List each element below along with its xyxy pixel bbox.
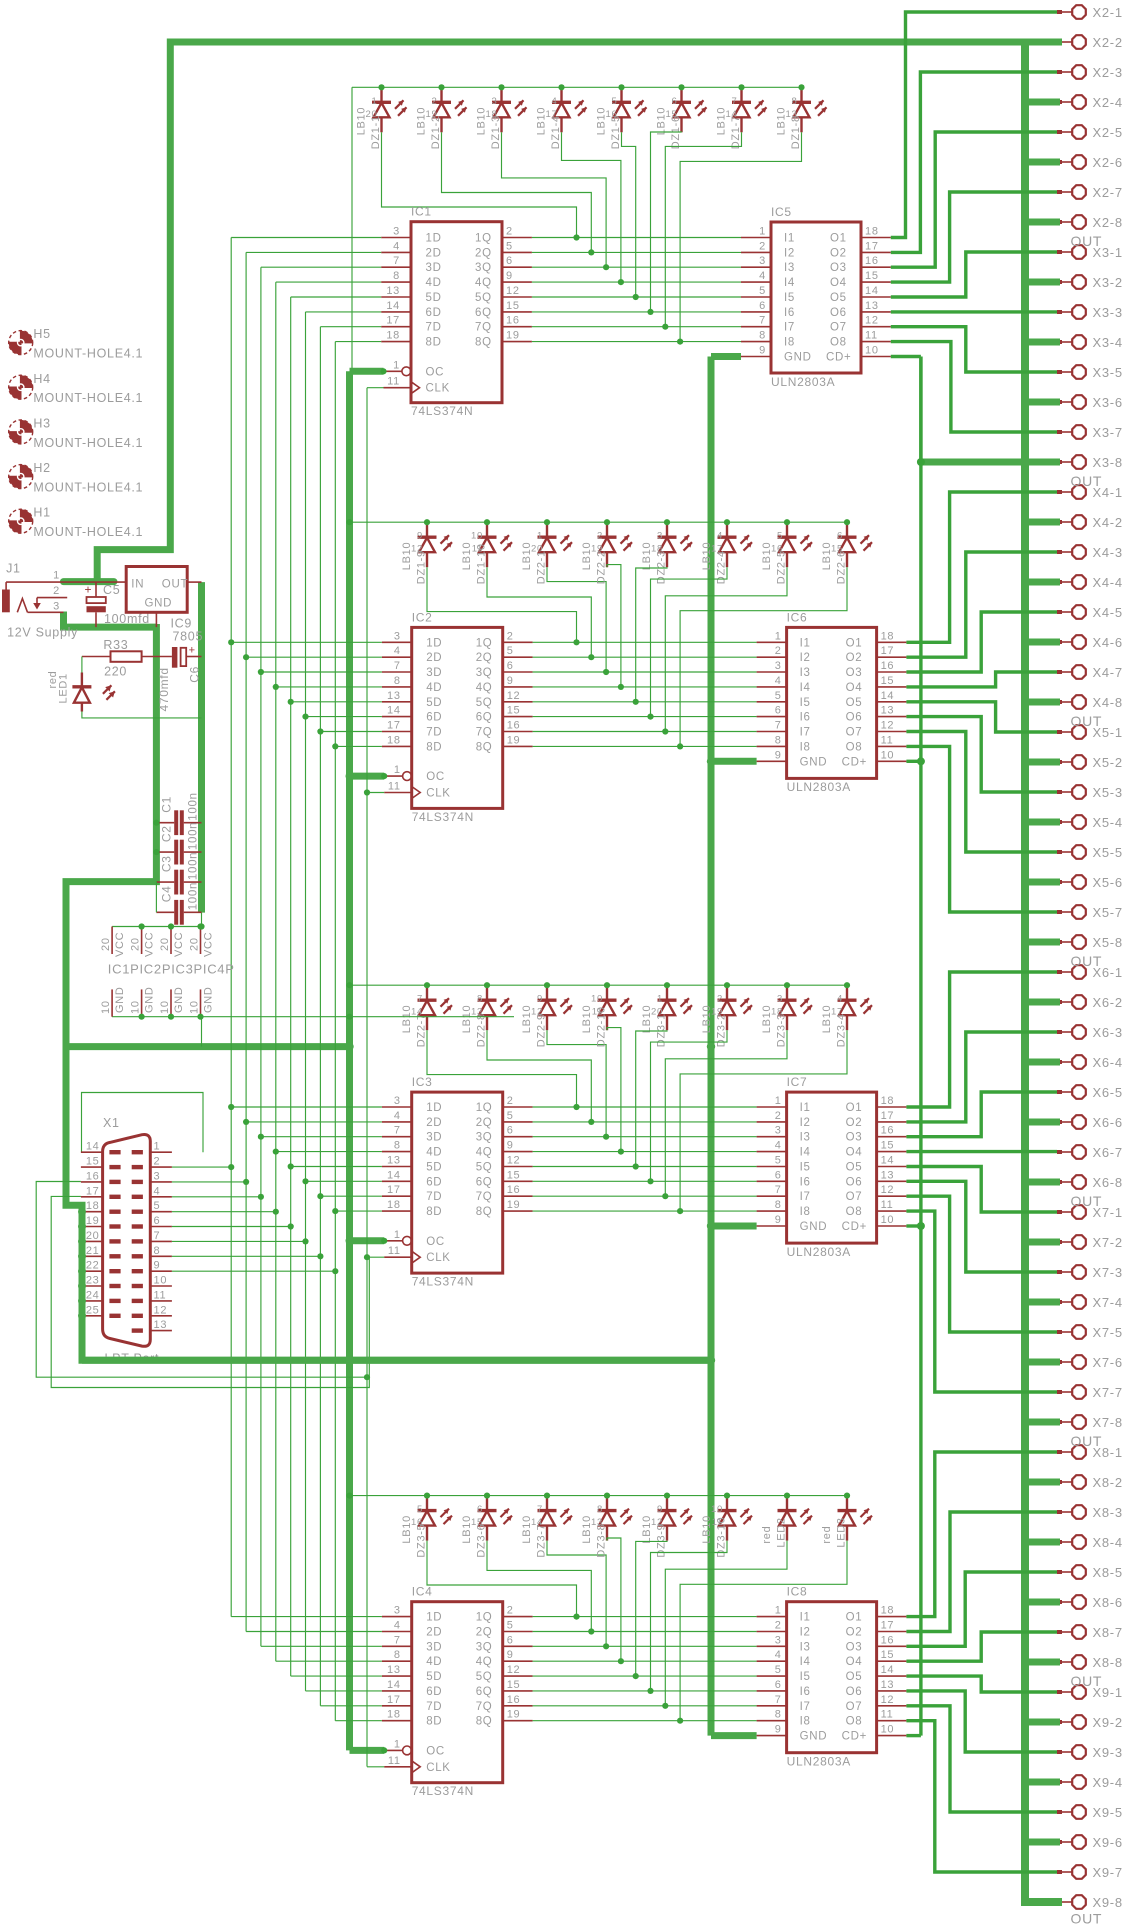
svg-text:DZ1-1: DZ1-1 xyxy=(370,115,382,149)
svg-text:X3-7: X3-7 xyxy=(1093,425,1123,440)
svg-text:13: 13 xyxy=(154,1319,168,1331)
svg-text:5D: 5D xyxy=(426,697,442,709)
svg-text:7: 7 xyxy=(775,1184,782,1196)
svg-text:I8: I8 xyxy=(784,337,795,349)
svg-text:I8: I8 xyxy=(800,1206,811,1218)
svg-text:7Q: 7Q xyxy=(476,1701,493,1713)
svg-text:C5: C5 xyxy=(103,583,120,597)
svg-text:X4-6: X4-6 xyxy=(1093,635,1123,650)
svg-text:21: 21 xyxy=(86,1245,100,1257)
svg-text:17: 17 xyxy=(865,240,879,252)
svg-text:DZ1-3: DZ1-3 xyxy=(490,115,502,149)
svg-text:8D: 8D xyxy=(426,1206,442,1218)
svg-text:I7: I7 xyxy=(800,727,811,739)
svg-text:X7-8: X7-8 xyxy=(1093,1415,1123,1430)
svg-text:VCC: VCC xyxy=(203,932,215,957)
svg-text:1Q: 1Q xyxy=(476,637,493,649)
svg-text:2Q: 2Q xyxy=(476,1627,493,1639)
svg-text:18: 18 xyxy=(387,1709,401,1721)
svg-text:I3: I3 xyxy=(784,262,795,274)
svg-text:X4-3: X4-3 xyxy=(1093,545,1123,560)
svg-text:O5: O5 xyxy=(846,1671,863,1683)
svg-text:100mfd: 100mfd xyxy=(104,612,150,626)
svg-text:100n: 100n xyxy=(188,882,200,910)
svg-text:H4: H4 xyxy=(33,372,50,386)
svg-text:5: 5 xyxy=(506,240,513,252)
svg-text:18: 18 xyxy=(486,109,498,120)
svg-text:11: 11 xyxy=(388,1755,401,1767)
svg-text:17: 17 xyxy=(831,1007,843,1018)
svg-text:5: 5 xyxy=(759,285,766,297)
svg-text:8: 8 xyxy=(792,96,798,107)
svg-text:3: 3 xyxy=(775,1125,782,1137)
svg-text:9: 9 xyxy=(507,675,514,687)
svg-text:2Q: 2Q xyxy=(476,652,493,664)
svg-text:X7-6: X7-6 xyxy=(1093,1355,1123,1370)
svg-text:7D: 7D xyxy=(426,727,442,739)
svg-text:X8-4: X8-4 xyxy=(1093,1535,1123,1550)
svg-text:5D: 5D xyxy=(426,1162,442,1174)
svg-text:IN: IN xyxy=(131,578,144,590)
svg-text:10: 10 xyxy=(881,1724,895,1736)
svg-text:IC9: IC9 xyxy=(171,617,193,631)
svg-text:O6: O6 xyxy=(830,307,847,319)
svg-text:1: 1 xyxy=(394,1229,401,1241)
svg-text:15: 15 xyxy=(471,1517,483,1528)
svg-text:7: 7 xyxy=(393,255,400,267)
svg-text:20: 20 xyxy=(130,937,142,951)
svg-text:5Q: 5Q xyxy=(475,292,492,304)
svg-text:16: 16 xyxy=(771,544,783,555)
svg-text:14: 14 xyxy=(86,1141,100,1153)
svg-text:4Q: 4Q xyxy=(475,277,492,289)
svg-text:5: 5 xyxy=(417,1504,423,1515)
svg-text:GND: GND xyxy=(114,986,126,1013)
svg-text:2D: 2D xyxy=(426,247,442,259)
svg-text:I7: I7 xyxy=(800,1191,811,1203)
svg-text:9: 9 xyxy=(775,1724,782,1736)
svg-text:I1: I1 xyxy=(784,233,795,245)
svg-text:14: 14 xyxy=(387,705,401,717)
svg-text:10: 10 xyxy=(881,1214,895,1226)
svg-text:O5: O5 xyxy=(846,697,863,709)
svg-text:12: 12 xyxy=(507,690,521,702)
svg-text:15: 15 xyxy=(666,109,678,120)
svg-text:OUT: OUT xyxy=(1071,953,1103,969)
svg-text:C2: C2 xyxy=(160,825,174,842)
svg-text:4D: 4D xyxy=(426,1656,442,1668)
svg-text:6D: 6D xyxy=(426,1686,442,1698)
svg-text:X5-7: X5-7 xyxy=(1093,905,1123,920)
svg-text:16: 16 xyxy=(507,1694,521,1706)
svg-text:OC: OC xyxy=(426,1236,445,1248)
svg-text:DZ2-9: DZ2-9 xyxy=(536,1013,548,1047)
svg-text:DZ3-3: DZ3-3 xyxy=(776,1013,788,1047)
svg-text:2: 2 xyxy=(597,531,603,542)
svg-text:O2: O2 xyxy=(846,1117,863,1129)
svg-text:GND: GND xyxy=(800,756,828,768)
svg-text:3: 3 xyxy=(154,1170,161,1182)
svg-text:17: 17 xyxy=(546,109,558,120)
svg-text:X2-3: X2-3 xyxy=(1093,65,1123,80)
svg-text:3D: 3D xyxy=(426,1132,442,1144)
svg-text:MOUNT-HOLE4.1: MOUNT-HOLE4.1 xyxy=(33,436,143,450)
svg-text:12: 12 xyxy=(881,720,895,732)
svg-text:5: 5 xyxy=(612,96,618,107)
svg-text:4Q: 4Q xyxy=(476,1147,493,1159)
svg-text:3Q: 3Q xyxy=(475,262,492,274)
svg-text:12: 12 xyxy=(531,1007,543,1018)
svg-text:+: + xyxy=(189,645,196,657)
svg-text:4: 4 xyxy=(394,645,401,657)
svg-text:20: 20 xyxy=(86,1230,100,1242)
svg-text:I5: I5 xyxy=(800,1162,811,1174)
svg-text:8: 8 xyxy=(775,1199,782,1211)
svg-text:X5-5: X5-5 xyxy=(1093,845,1123,860)
svg-text:14: 14 xyxy=(386,300,400,312)
svg-text:17: 17 xyxy=(881,645,895,657)
svg-text:I3: I3 xyxy=(800,1132,811,1144)
svg-text:X6-3: X6-3 xyxy=(1093,1025,1123,1040)
svg-text:IC4: IC4 xyxy=(412,1585,433,1599)
svg-text:17: 17 xyxy=(881,1110,895,1122)
svg-text:O6: O6 xyxy=(846,712,863,724)
svg-text:6: 6 xyxy=(506,255,513,267)
svg-text:OUT: OUT xyxy=(1071,473,1103,489)
svg-text:4: 4 xyxy=(394,1110,401,1122)
svg-text:IC3: IC3 xyxy=(412,1075,433,1089)
svg-text:VCC: VCC xyxy=(114,932,126,957)
svg-text:7: 7 xyxy=(775,1694,782,1706)
svg-text:17: 17 xyxy=(881,1620,895,1632)
svg-text:6: 6 xyxy=(507,1125,514,1137)
svg-text:X6-7: X6-7 xyxy=(1093,1145,1123,1160)
svg-text:MOUNT-HOLE4.1: MOUNT-HOLE4.1 xyxy=(33,391,143,405)
svg-text:X3-6: X3-6 xyxy=(1093,395,1123,410)
svg-text:13: 13 xyxy=(865,300,879,312)
svg-text:4: 4 xyxy=(837,994,843,1005)
svg-text:X5-2: X5-2 xyxy=(1093,755,1123,770)
svg-text:12: 12 xyxy=(411,544,423,555)
svg-text:2: 2 xyxy=(507,1095,514,1107)
svg-text:18: 18 xyxy=(881,1605,895,1617)
svg-text:22: 22 xyxy=(86,1260,100,1272)
svg-text:I4: I4 xyxy=(800,1147,811,1159)
svg-text:ULN2803A: ULN2803A xyxy=(787,1245,851,1259)
svg-text:5D: 5D xyxy=(426,1671,442,1683)
svg-text:11: 11 xyxy=(592,1007,603,1018)
svg-text:10: 10 xyxy=(130,1000,142,1014)
svg-text:O3: O3 xyxy=(846,667,863,679)
svg-text:I8: I8 xyxy=(800,741,811,753)
svg-text:X2-2: X2-2 xyxy=(1093,35,1123,50)
svg-text:19: 19 xyxy=(86,1215,100,1227)
svg-text:IC2: IC2 xyxy=(412,610,433,624)
svg-text:MOUNT-HOLE4.1: MOUNT-HOLE4.1 xyxy=(33,525,143,539)
svg-text:X9-8: X9-8 xyxy=(1093,1895,1123,1910)
svg-text:17: 17 xyxy=(86,1185,100,1197)
svg-text:red: red xyxy=(761,1526,773,1544)
svg-text:4D: 4D xyxy=(426,277,442,289)
svg-text:O8: O8 xyxy=(846,1206,863,1218)
svg-text:1: 1 xyxy=(394,1738,401,1750)
svg-text:GND: GND xyxy=(173,986,185,1013)
svg-text:O4: O4 xyxy=(846,1656,863,1668)
svg-text:7D: 7D xyxy=(426,322,442,334)
svg-text:8D: 8D xyxy=(426,741,442,753)
svg-text:10: 10 xyxy=(471,531,483,542)
svg-text:X9-5: X9-5 xyxy=(1093,1805,1123,1820)
svg-text:1Q: 1Q xyxy=(476,1612,493,1624)
svg-text:IC8: IC8 xyxy=(787,1585,808,1599)
svg-text:X8-7: X8-7 xyxy=(1093,1625,1123,1640)
svg-text:15: 15 xyxy=(881,1140,895,1152)
svg-text:11: 11 xyxy=(881,1199,894,1211)
svg-text:X9-3: X9-3 xyxy=(1093,1745,1123,1760)
svg-text:4Q: 4Q xyxy=(476,682,493,694)
svg-text:GND: GND xyxy=(145,598,173,610)
svg-text:OC: OC xyxy=(426,771,445,783)
svg-text:LED1: LED1 xyxy=(58,673,70,703)
svg-text:4Q: 4Q xyxy=(476,1656,493,1668)
svg-text:23: 23 xyxy=(86,1275,100,1287)
svg-text:100n: 100n xyxy=(188,852,200,880)
svg-text:X8-2: X8-2 xyxy=(1093,1475,1123,1490)
svg-text:3: 3 xyxy=(394,630,401,642)
svg-text:7805: 7805 xyxy=(173,630,204,644)
svg-text:10: 10 xyxy=(100,1000,112,1014)
svg-text:2: 2 xyxy=(717,994,723,1005)
svg-text:X8-3: X8-3 xyxy=(1093,1505,1123,1520)
svg-text:X3-8: X3-8 xyxy=(1093,455,1123,470)
svg-text:DZ3-5: DZ3-5 xyxy=(416,1524,428,1558)
svg-text:O5: O5 xyxy=(846,1162,863,1174)
svg-text:I8: I8 xyxy=(800,1716,811,1728)
svg-text:O1: O1 xyxy=(830,233,847,245)
svg-text:13: 13 xyxy=(386,285,400,297)
svg-text:LED2: LED2 xyxy=(776,1517,788,1547)
svg-text:6Q: 6Q xyxy=(476,712,493,724)
svg-text:X2-8: X2-8 xyxy=(1093,215,1123,230)
svg-text:7: 7 xyxy=(775,720,782,732)
svg-text:3: 3 xyxy=(775,660,782,672)
svg-text:7Q: 7Q xyxy=(476,727,493,739)
svg-text:74LS374N: 74LS374N xyxy=(412,1275,474,1289)
svg-text:7D: 7D xyxy=(426,1701,442,1713)
svg-text:R33: R33 xyxy=(103,638,128,652)
svg-text:12: 12 xyxy=(506,285,520,297)
svg-text:9: 9 xyxy=(417,531,423,542)
svg-text:DZ1-8: DZ1-8 xyxy=(790,115,802,149)
svg-text:15: 15 xyxy=(506,300,520,312)
svg-text:4: 4 xyxy=(552,96,558,107)
svg-text:I4: I4 xyxy=(784,277,795,289)
svg-text:5: 5 xyxy=(507,1620,514,1632)
svg-text:17: 17 xyxy=(711,544,723,555)
svg-text:GND: GND xyxy=(784,352,812,364)
svg-text:13: 13 xyxy=(591,1517,603,1528)
svg-text:9: 9 xyxy=(657,1504,663,1515)
svg-text:X8-6: X8-6 xyxy=(1093,1595,1123,1610)
svg-text:2D: 2D xyxy=(426,1117,442,1129)
svg-text:14: 14 xyxy=(387,1679,401,1691)
svg-text:2: 2 xyxy=(506,226,513,238)
svg-text:4: 4 xyxy=(775,1649,782,1661)
svg-text:15: 15 xyxy=(865,270,879,282)
svg-text:100n: 100n xyxy=(188,822,200,850)
svg-text:9: 9 xyxy=(507,1649,514,1661)
svg-text:8: 8 xyxy=(759,330,766,342)
svg-text:16: 16 xyxy=(507,720,521,732)
svg-text:74LS374N: 74LS374N xyxy=(412,1784,474,1798)
svg-text:12: 12 xyxy=(651,1517,663,1528)
svg-text:5: 5 xyxy=(154,1200,161,1212)
svg-text:X4-2: X4-2 xyxy=(1093,515,1123,530)
svg-text:O2: O2 xyxy=(846,1627,863,1639)
svg-text:X7-5: X7-5 xyxy=(1093,1325,1123,1340)
svg-text:3: 3 xyxy=(492,96,498,107)
svg-text:X4-8: X4-8 xyxy=(1093,695,1123,710)
svg-text:17: 17 xyxy=(386,315,400,327)
svg-text:5: 5 xyxy=(777,531,783,542)
svg-text:4: 4 xyxy=(717,531,723,542)
svg-text:X6-4: X6-4 xyxy=(1093,1055,1123,1070)
svg-text:14: 14 xyxy=(531,1517,543,1528)
svg-text:O4: O4 xyxy=(846,1147,863,1159)
svg-text:CD+: CD+ xyxy=(842,756,867,768)
svg-text:11: 11 xyxy=(712,1517,723,1528)
svg-text:8: 8 xyxy=(477,994,483,1005)
svg-text:GND: GND xyxy=(203,986,215,1013)
svg-text:I6: I6 xyxy=(784,307,795,319)
svg-text:X3-5: X3-5 xyxy=(1093,365,1123,380)
svg-text:18: 18 xyxy=(865,226,879,238)
svg-text:2: 2 xyxy=(507,630,514,642)
svg-text:DZ3-7: DZ3-7 xyxy=(536,1524,548,1558)
svg-text:O2: O2 xyxy=(846,652,863,664)
svg-text:10: 10 xyxy=(189,1000,201,1014)
svg-text:1: 1 xyxy=(154,1141,161,1153)
svg-text:3D: 3D xyxy=(426,1641,442,1653)
svg-text:8D: 8D xyxy=(426,337,442,349)
svg-text:I2: I2 xyxy=(800,652,811,664)
svg-text:18: 18 xyxy=(387,734,401,746)
svg-text:O8: O8 xyxy=(846,741,863,753)
svg-text:O1: O1 xyxy=(846,1102,863,1114)
svg-text:20: 20 xyxy=(100,937,112,951)
svg-text:6Q: 6Q xyxy=(476,1176,493,1188)
svg-text:15: 15 xyxy=(86,1156,100,1168)
svg-text:16: 16 xyxy=(606,109,618,120)
svg-text:X4-4: X4-4 xyxy=(1093,575,1123,590)
svg-text:2: 2 xyxy=(775,1110,782,1122)
svg-text:GND: GND xyxy=(800,1221,828,1233)
svg-text:3: 3 xyxy=(394,1605,401,1617)
svg-text:I6: I6 xyxy=(800,1176,811,1188)
svg-text:1: 1 xyxy=(393,359,400,371)
svg-text:I5: I5 xyxy=(800,697,811,709)
svg-text:CLK: CLK xyxy=(426,788,450,800)
svg-text:I6: I6 xyxy=(800,712,811,724)
svg-text:DZ3-6: DZ3-6 xyxy=(476,1524,488,1558)
svg-text:O3: O3 xyxy=(830,262,847,274)
svg-text:16: 16 xyxy=(507,1184,521,1196)
svg-text:DZ2-6: DZ2-6 xyxy=(836,550,848,584)
svg-text:I3: I3 xyxy=(800,1641,811,1653)
svg-text:9: 9 xyxy=(506,270,513,282)
svg-text:I5: I5 xyxy=(800,1671,811,1683)
svg-text:DZ2-5: DZ2-5 xyxy=(776,550,788,584)
svg-text:20: 20 xyxy=(651,1007,663,1018)
svg-text:11: 11 xyxy=(881,734,894,746)
svg-text:1: 1 xyxy=(775,630,782,642)
svg-text:1: 1 xyxy=(394,764,401,776)
svg-text:X3-4: X3-4 xyxy=(1093,335,1123,350)
svg-text:3Q: 3Q xyxy=(476,667,493,679)
svg-text:11: 11 xyxy=(154,1289,167,1301)
svg-text:I4: I4 xyxy=(800,1656,811,1668)
svg-text:I3: I3 xyxy=(800,667,811,679)
svg-text:7: 7 xyxy=(394,660,401,672)
svg-text:X8-8: X8-8 xyxy=(1093,1655,1123,1670)
svg-text:6: 6 xyxy=(507,1634,514,1646)
svg-text:24: 24 xyxy=(86,1289,100,1301)
svg-text:17: 17 xyxy=(387,1184,401,1196)
svg-text:IC7: IC7 xyxy=(787,1075,808,1089)
svg-text:IC1: IC1 xyxy=(411,205,432,219)
svg-text:X7-2: X7-2 xyxy=(1093,1235,1123,1250)
svg-text:X2-6: X2-6 xyxy=(1093,155,1123,170)
svg-text:X6-5: X6-5 xyxy=(1093,1085,1123,1100)
svg-text:X2-1: X2-1 xyxy=(1093,5,1123,20)
svg-text:X3-2: X3-2 xyxy=(1093,275,1123,290)
svg-text:DZ2-2: DZ2-2 xyxy=(596,550,608,584)
svg-text:16: 16 xyxy=(881,660,895,672)
svg-text:CD+: CD+ xyxy=(842,1221,867,1233)
svg-text:1Q: 1Q xyxy=(475,233,492,245)
svg-text:8: 8 xyxy=(597,1504,603,1515)
svg-text:3: 3 xyxy=(759,255,766,267)
svg-text:2: 2 xyxy=(154,1156,161,1168)
svg-text:20: 20 xyxy=(189,937,201,951)
svg-text:1: 1 xyxy=(53,570,60,582)
svg-text:19: 19 xyxy=(711,1007,723,1018)
svg-text:6: 6 xyxy=(672,96,678,107)
svg-text:6Q: 6Q xyxy=(476,1686,493,1698)
svg-text:3Q: 3Q xyxy=(476,1132,493,1144)
svg-text:2: 2 xyxy=(432,96,438,107)
svg-text:4: 4 xyxy=(154,1185,161,1197)
svg-text:6: 6 xyxy=(837,531,843,542)
svg-text:13: 13 xyxy=(471,1007,483,1018)
svg-text:13: 13 xyxy=(387,1664,401,1676)
svg-text:CLK: CLK xyxy=(426,1252,450,1264)
svg-text:2: 2 xyxy=(507,1605,514,1617)
svg-text:17: 17 xyxy=(387,1694,401,1706)
svg-text:15: 15 xyxy=(881,1649,895,1661)
svg-text:H3: H3 xyxy=(33,416,50,430)
svg-text:IC5: IC5 xyxy=(771,205,792,219)
svg-text:7: 7 xyxy=(394,1125,401,1137)
svg-text:8: 8 xyxy=(775,734,782,746)
svg-text:3: 3 xyxy=(393,226,400,238)
svg-text:4D: 4D xyxy=(426,1147,442,1159)
svg-text:8Q: 8Q xyxy=(476,1206,493,1218)
svg-text:18: 18 xyxy=(86,1200,100,1212)
svg-text:5: 5 xyxy=(507,1110,514,1122)
svg-text:1: 1 xyxy=(372,96,378,107)
svg-text:X8-5: X8-5 xyxy=(1093,1565,1123,1580)
